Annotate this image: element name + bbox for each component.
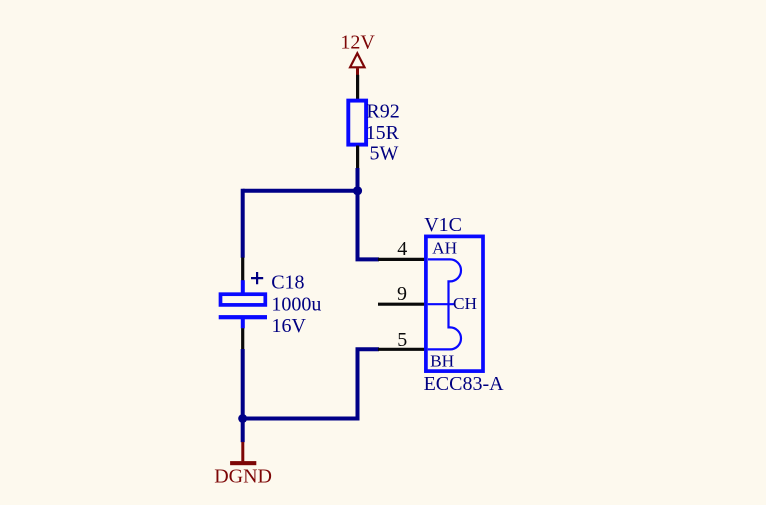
svg-text:R92: R92 <box>366 100 399 122</box>
tube V1C pin 9 <box>378 303 425 306</box>
resistor R92 body <box>348 101 366 145</box>
capacitor C18 body <box>219 280 267 328</box>
wire: node A down to pin 4 level <box>356 191 360 260</box>
svg-text:ECC83-A: ECC83-A <box>424 373 505 395</box>
svg-text:BH: BH <box>430 351 454 370</box>
wire: to tube pin 5 <box>356 347 380 351</box>
wire: bottom corner up to pin 5 level <box>356 349 360 420</box>
wire: capacitor column down to C18 <box>241 189 245 258</box>
resistor R92 pin 1 (top) <box>356 75 359 100</box>
svg-text:16V: 16V <box>272 315 307 337</box>
resistor R92 pin 2 (bottom) <box>356 146 359 169</box>
svg-text:1000u: 1000u <box>271 294 321 316</box>
capacitor C18 plus sign <box>251 272 263 284</box>
svg-text:15R: 15R <box>366 122 400 144</box>
wire: node B right along bottom <box>243 417 358 421</box>
svg-text:12V: 12V <box>340 32 375 54</box>
junction node B <box>238 414 247 423</box>
capacitor C18 pin 1 (top, +) <box>241 258 244 281</box>
wire: node B down to ground <box>241 417 245 443</box>
svg-text:5: 5 <box>397 329 407 351</box>
svg-text:AH: AH <box>432 238 457 257</box>
svg-text:CH: CH <box>453 294 477 313</box>
svg-text:V1C: V1C <box>424 214 462 236</box>
tube V1C body <box>426 236 483 371</box>
svg-text:DGND: DGND <box>214 466 272 488</box>
wire: to tube pin 4 <box>356 257 380 261</box>
junction node A <box>353 186 362 195</box>
power symbol 12V arrow <box>350 53 364 75</box>
svg-text:9: 9 <box>397 283 407 305</box>
wire: node A left to capacitor column <box>243 189 358 193</box>
svg-text:4: 4 <box>397 238 407 260</box>
wire: capacitor bottom to node B <box>241 349 245 419</box>
tube V1C pin 4 <box>378 258 425 261</box>
svg-text:C18: C18 <box>271 271 304 293</box>
tube V1C pin 5 <box>378 348 425 351</box>
ground DGND symbol <box>230 442 256 465</box>
capacitor C18 pin 2 (bottom) <box>241 328 244 349</box>
svg-text:5W: 5W <box>370 142 399 164</box>
tube V1C heater filament <box>428 259 461 349</box>
wire: resistor bottom to node A <box>356 168 360 191</box>
